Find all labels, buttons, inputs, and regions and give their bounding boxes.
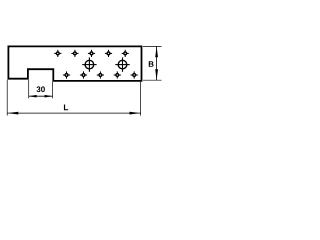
dimension 30: value label <box>36 86 44 92</box>
small hole H3 top row <box>88 50 95 57</box>
small hole H2 top row <box>71 50 78 57</box>
small hole H7 bottom row <box>80 71 87 78</box>
dimension L: value label <box>64 104 68 110</box>
dimension B: dimension line with arrows <box>155 46 158 80</box>
small hole H8 bottom row <box>97 71 104 78</box>
dimension L: extension lines <box>7 80 140 116</box>
dimension 30: dimension line with arrows <box>29 95 53 98</box>
dimension B: extension lines <box>143 46 162 80</box>
plate outline <box>8 46 141 81</box>
small hole H6 bottom row <box>63 71 70 78</box>
small hole H10 bottom row <box>131 71 138 78</box>
small hole H5 top row <box>122 50 129 57</box>
big hole C2 with crosshair <box>115 57 129 71</box>
dimension L: dimension line with arrows <box>7 112 140 115</box>
small hole H1 top row <box>54 50 61 57</box>
small hole H9 bottom row <box>114 71 121 78</box>
big hole C1 with crosshair <box>82 57 96 71</box>
dimension B: value label <box>149 61 154 67</box>
dimension 30: extension lines <box>29 80 53 99</box>
small hole H4 top row <box>105 50 112 57</box>
